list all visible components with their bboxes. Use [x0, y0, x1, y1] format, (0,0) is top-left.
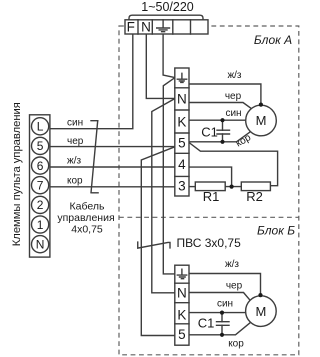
svg-text:Клеммы пульта управления: Клеммы пульта управления [11, 102, 23, 246]
svg-text:4х0,75: 4х0,75 [71, 224, 103, 236]
wire ж/з motor A [189, 84, 261, 104]
svg-text:N: N [36, 238, 45, 252]
capacitor C1 block A [217, 120, 230, 142]
wire кор control [50, 186, 175, 188]
dashed divider between Блок А and Блок Б [119, 216, 299, 218]
svg-text:C1: C1 [198, 316, 215, 331]
svg-text:4: 4 [178, 157, 186, 172]
svg-text:син: син [225, 108, 241, 119]
wire кор motor Б [189, 323, 250, 335]
wire earth A to earth Б [163, 78, 175, 274]
svg-text:1: 1 [37, 218, 44, 232]
svg-text:5: 5 [37, 139, 44, 153]
wire чер motor A [189, 103, 252, 109]
motor M block Б [246, 296, 277, 327]
svg-text:Блок Б: Блок Б [257, 224, 295, 238]
wire earth top to block A earth [163, 34, 175, 78]
resistor R2 [241, 182, 270, 191]
wire чер motor Б [189, 293, 250, 301]
svg-text:N: N [141, 20, 151, 35]
junction dot motor A top [259, 103, 263, 107]
svg-text:Кабель: Кабель [70, 201, 105, 213]
bracket 1~50/220 [129, 15, 203, 20]
svg-text:K: K [177, 307, 186, 322]
control terminal strip [30, 115, 50, 257]
svg-text:ПВС 3х0,75: ПВС 3х0,75 [177, 236, 242, 250]
dashed enclosure blocks [119, 26, 299, 355]
svg-text:C1: C1 [201, 125, 218, 140]
wire кор motor A [189, 132, 250, 142]
svg-text:L: L [37, 120, 44, 134]
svg-text:кор: кор [228, 338, 244, 349]
wire чер control [50, 146, 175, 148]
svg-text:5: 5 [178, 327, 186, 342]
wire 3-row to R1 [189, 186, 195, 188]
terminal block Б [175, 265, 189, 345]
svg-text:ж/з: ж/з [67, 156, 81, 167]
wire R1 to R2 [225, 186, 241, 188]
svg-text:M: M [255, 304, 266, 319]
earth symbol block A [177, 73, 186, 82]
svg-text:7: 7 [37, 179, 44, 193]
junction dot C1 top Б [220, 311, 224, 315]
svg-text:F: F [127, 20, 135, 35]
wire 4-row to R1R2 junction [189, 167, 232, 187]
terminal block A [175, 68, 189, 196]
wire 5-row to R2 right [189, 143, 278, 186]
svg-text:син: син [67, 118, 83, 129]
junction dot motor Б top [258, 293, 262, 297]
svg-text:чер: чер [226, 281, 243, 292]
svg-text:R1: R1 [203, 189, 220, 204]
wire F to L (син) [50, 34, 133, 129]
wire ж/з control [50, 166, 175, 168]
wire N top to block A N [146, 34, 175, 98]
svg-text:N: N [177, 91, 187, 106]
svg-text:ж/з: ж/з [227, 70, 241, 81]
svg-text:N: N [177, 286, 187, 301]
svg-text:ж/з: ж/з [225, 259, 239, 270]
svg-text:5: 5 [178, 136, 186, 151]
svg-text:2: 2 [37, 198, 44, 212]
svg-text:R2: R2 [246, 189, 263, 204]
junction dot C1 bottom Б [220, 333, 224, 337]
svg-text:3: 3 [178, 178, 186, 193]
wire ж/з motor Б [189, 274, 261, 295]
svg-text:M: M [256, 113, 267, 128]
junction dot C1 top A [220, 118, 224, 122]
wire син motor A [189, 119, 246, 121]
cable marker control [91, 121, 98, 193]
cable marker ПВС [138, 242, 170, 248]
resistor R1 [195, 182, 225, 191]
svg-text:чер: чер [225, 91, 242, 102]
junction dot C1 bottom A [220, 140, 224, 144]
svg-text:чер: чер [67, 136, 84, 147]
svg-text:Блок А: Блок А [254, 33, 292, 47]
wire син motor Б [189, 312, 246, 314]
svg-text:син: син [217, 299, 233, 310]
earth symbol block Б [177, 269, 186, 279]
svg-text:1~50/220: 1~50/220 [141, 0, 194, 14]
junction dot R1 R2 [230, 185, 234, 189]
earth symbol mains [157, 20, 170, 32]
terminal strip mains F N earth [125, 20, 208, 35]
capacitor C1 block Б [217, 313, 230, 335]
svg-text:K: K [177, 115, 186, 130]
svg-text:кор: кор [67, 175, 83, 186]
svg-text:управления: управления [57, 212, 114, 224]
svg-text:6: 6 [37, 159, 44, 173]
svg-text:кор: кор [234, 132, 253, 150]
motor M block A [246, 105, 277, 136]
wire N A to N Б [152, 99, 175, 293]
wire 5 A to 5 Б [141, 147, 175, 336]
